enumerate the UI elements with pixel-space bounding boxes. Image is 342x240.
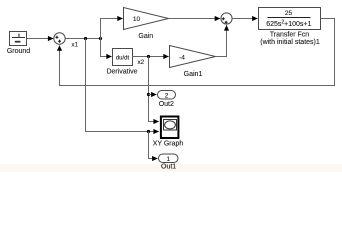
svg-text:Derivative: Derivative	[106, 69, 137, 76]
wire branch to out2	[149, 94, 157, 96]
transfer fcn block	[259, 8, 321, 47]
wire ground to sum1	[27, 38, 54, 40]
wire x2 branch down to XY input1	[149, 57, 159, 122]
XY Graph block	[153, 117, 184, 148]
derivative block	[106, 49, 137, 76]
wire sum1 to hub	[65, 38, 100, 40]
svg-text:Gain: Gain	[138, 33, 153, 40]
gain1 block triangle	[170, 46, 216, 79]
gain block triangle	[124, 8, 169, 41]
wire gain to sum2	[169, 18, 221, 20]
svg-text:Out1: Out1	[161, 164, 176, 171]
svg-text:1: 1	[166, 156, 170, 163]
wire hub up to gain	[101, 19, 123, 57]
svg-text:(with initial states)1: (with initial states)1	[260, 39, 320, 46]
node dot out2 branch	[147, 93, 150, 96]
wire x1 branch down to XY input2	[86, 39, 159, 132]
node dot hub	[99, 37, 102, 40]
wire gain1 up to sum2	[216, 25, 227, 56]
svg-text:Transfer Fcn: Transfer Fcn	[270, 31, 310, 38]
node dot x2 branch	[147, 55, 150, 58]
wire sum2 to transfer fcn	[232, 18, 257, 20]
wire branch to out1	[149, 132, 158, 159]
svg-text:du/dt: du/dt	[116, 55, 130, 61]
svg-text:10: 10	[133, 16, 141, 23]
svg-text:25: 25	[285, 10, 293, 17]
sum junction sum2	[221, 13, 232, 24]
outport Out1	[159, 154, 179, 171]
svg-text:Out2: Out2	[159, 101, 174, 108]
sum junction sum1	[54, 33, 65, 44]
node dot out1 branch	[147, 130, 150, 133]
svg-text:-4: -4	[179, 54, 185, 61]
ground block	[7, 32, 30, 56]
svg-text:2: 2	[165, 92, 169, 99]
svg-text:Gain1: Gain1	[184, 71, 203, 78]
wire derivative x2 to gain1	[133, 56, 169, 58]
svg-text:625s2+100s+1: 625s2+100s+1	[266, 20, 311, 28]
wire feedback transfer fcn to sum1	[60, 19, 335, 86]
svg-text:Ground: Ground	[7, 48, 30, 55]
wire hub down to derivative	[101, 39, 112, 57]
svg-text:XY Graph: XY Graph	[153, 140, 184, 147]
svg-text:x2: x2	[138, 59, 145, 66]
svg-text:x1: x1	[71, 41, 78, 48]
outport Out2	[158, 91, 176, 109]
bottom margin band	[0, 164, 342, 172]
node dot x1 branch	[84, 37, 87, 40]
